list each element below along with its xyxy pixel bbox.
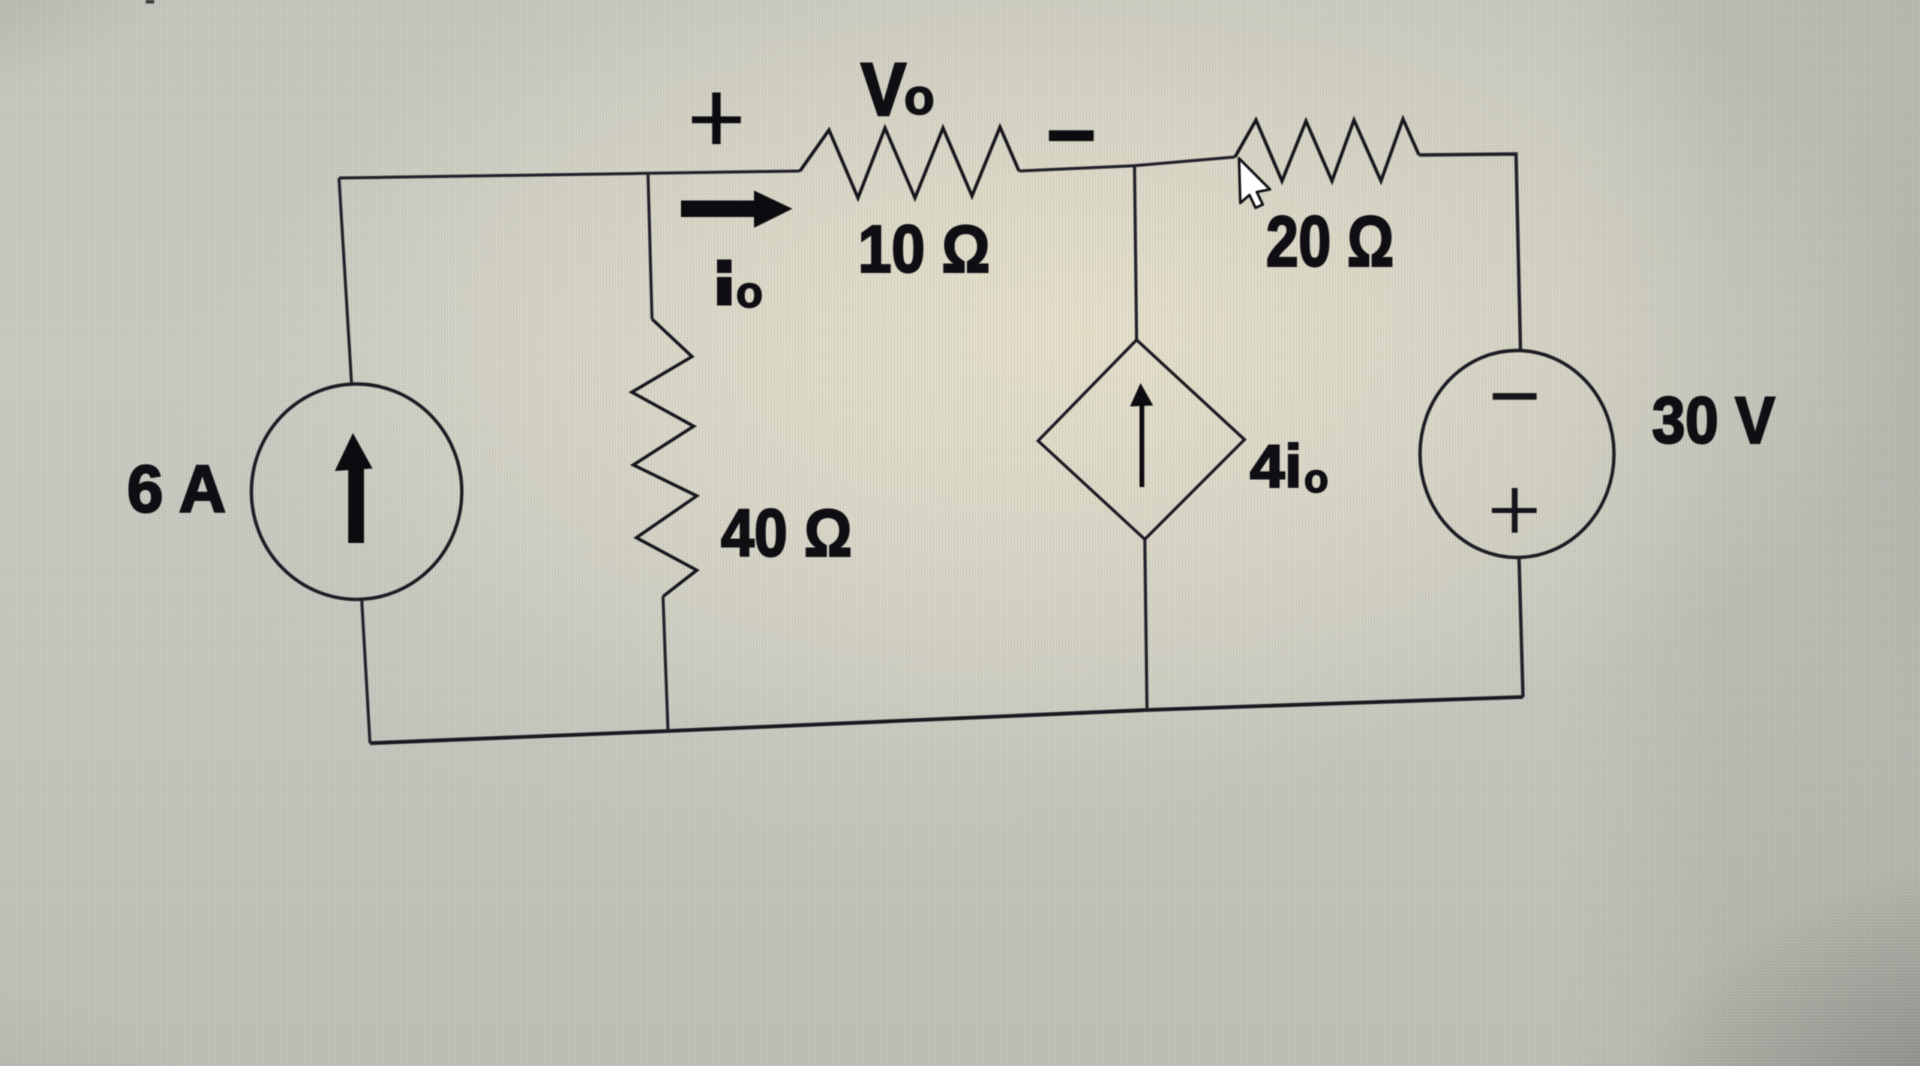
svg-text:30 V: 30 V bbox=[1652, 383, 1775, 457]
arrow inside diamond bbox=[1140, 403, 1145, 487]
minus sign inside 30V source bbox=[1493, 393, 1537, 400]
resistor 10 ohm (horizontal zigzag) bbox=[800, 127, 1019, 198]
label io bbox=[717, 260, 732, 274]
wire: 30V source bottom to bottom-right corner bbox=[1519, 558, 1523, 698]
wire: 10-ohm right end to mid junction bbox=[1019, 166, 1134, 171]
mouse cursor bbox=[1239, 158, 1270, 208]
svg-text:4i: 4i bbox=[1250, 433, 1302, 500]
plus sign inside 30V source bbox=[1492, 508, 1537, 513]
wire: mid junction down to dependent source top bbox=[1135, 166, 1137, 340]
svg-text:20 Ω: 20 Ω bbox=[1266, 203, 1394, 282]
wire: diamond bottom to bottom rail bbox=[1145, 539, 1147, 710]
plus sign of Vo bbox=[692, 116, 741, 123]
speck at top edge bbox=[146, 0, 154, 4]
6A arrow (up) inside source bbox=[348, 466, 364, 543]
wire: mid junction to 20-ohm left end bbox=[1134, 157, 1235, 166]
wire: top-left corner to 10-ohm left end bbox=[339, 171, 800, 178]
svg-text:10 Ω: 10 Ω bbox=[858, 212, 990, 287]
wire: 20-ohm right end to top-right corner and down to 30V source bbox=[1419, 154, 1521, 350]
svg-text:40 Ω: 40 Ω bbox=[721, 496, 852, 571]
svg-text:6 A: 6 A bbox=[127, 452, 226, 527]
current source 6A (circle) bbox=[251, 384, 461, 599]
svg-text:o: o bbox=[736, 268, 763, 317]
resistor 20 ohm (horizontal zigzag) bbox=[1235, 119, 1419, 181]
io arrow bbox=[681, 201, 756, 218]
wire: 40-ohm top feed bbox=[648, 174, 652, 319]
resistor 40 ohm (vertical zigzag) bbox=[632, 319, 697, 597]
minus sign of Vo bbox=[1049, 130, 1094, 141]
wire: bottom rail bbox=[370, 697, 1523, 743]
svg-text:o: o bbox=[904, 69, 935, 125]
voltage source 30V (circle) bbox=[1420, 351, 1614, 558]
wire: 40-ohm bottom feed bbox=[663, 597, 668, 732]
svg-text:V: V bbox=[861, 48, 906, 131]
dependent source 4io (diamond) bbox=[1038, 340, 1244, 539]
svg-text:o: o bbox=[1304, 457, 1328, 501]
wire: below 6A source to bottom-left corner bbox=[362, 600, 370, 744]
wire: left vertical from top corner down to 6A source top bbox=[339, 178, 352, 384]
